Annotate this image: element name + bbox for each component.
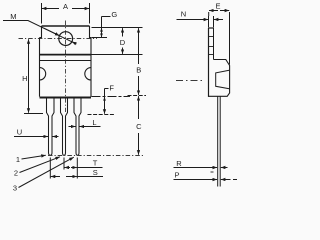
side view: tab boundary tick (209, 54, 214, 56)
front view: right side notch (85, 68, 91, 80)
dimension U (14, 136, 59, 138)
dimension L (69, 126, 101, 128)
front view: vertical centerline (65, 21, 67, 113)
svg-text:B: B (136, 66, 141, 75)
svg-text:D: D (120, 38, 126, 47)
front view: tab outline with side step (40, 26, 92, 38)
extension line tab top (92, 27, 143, 29)
side view: tab top edge (209, 27, 214, 29)
extension line lead shoulder right (dashed) (88, 114, 115, 116)
extension line lead3 center (76, 158, 78, 179)
svg-text:P: P (174, 171, 179, 180)
lead 3 (74, 98, 81, 156)
side view: back edge (208, 28, 210, 97)
dimension S (51, 176, 103, 178)
svg-text:C: C (136, 122, 142, 131)
lead 2 (61, 98, 68, 156)
svg-text:U: U (17, 128, 22, 137)
dimension E (209, 11, 230, 65)
svg-text:S: S (93, 168, 98, 177)
svg-text:G: G (111, 10, 117, 19)
extension line tab bottom (92, 54, 143, 56)
dimension R (174, 167, 228, 169)
leader pin 3 (19, 157, 74, 187)
svg-text:A: A (63, 2, 68, 11)
front view: mold line (40, 60, 92, 62)
extension line body bottom right (92, 96, 131, 98)
side view: mid centerline dash (176, 80, 203, 82)
extension line lead shoulder left (24, 113, 43, 115)
dimension A (42, 3, 90, 24)
svg-text:3: 3 (13, 184, 17, 193)
side view: tab front edge (213, 28, 215, 60)
front view: horizontal hole centerline (19, 38, 98, 40)
svg-text:H: H (22, 74, 27, 83)
extension line lead2 center (63, 158, 65, 170)
dimension B (138, 28, 140, 95)
extension line body bottom (dashed) (128, 95, 147, 97)
lead 1 (47, 98, 55, 156)
side view: hole top tick (209, 36, 214, 38)
leader pin 2 (20, 157, 61, 173)
dimension F (105, 89, 109, 114)
svg-text:M: M (10, 12, 16, 21)
svg-text:1: 1 (16, 155, 20, 164)
svg-text:E: E (215, 2, 220, 11)
svg-text:L: L (92, 118, 96, 127)
svg-text:F: F (109, 83, 114, 92)
front view: left side notch (40, 68, 46, 80)
dimension T (64, 167, 102, 169)
dimension C (138, 96, 140, 155)
svg-text:T: T (93, 159, 98, 168)
dimension G (92, 17, 111, 38)
dimension M (hole diameter leader) (3, 21, 76, 44)
extension line lead1 center (49, 158, 51, 179)
dimension H (28, 39, 30, 113)
dimension N (177, 16, 224, 28)
svg-text:R: R (176, 159, 182, 168)
front view: tab/body boundary thick line (40, 54, 92, 56)
svg-text:2: 2 (14, 169, 18, 178)
dimension D (122, 28, 124, 54)
side view: hole bottom tick (209, 46, 214, 48)
front view: mounting hole (59, 32, 73, 46)
svg-text:N: N (181, 10, 186, 19)
side view: inner ledge (216, 70, 230, 88)
side view: body outline (209, 60, 230, 97)
side view: lead (218, 96, 221, 186)
extension line lead tips (dash-dot) (48, 155, 145, 157)
leader pin 1 (22, 155, 46, 159)
dimension P (174, 179, 238, 181)
small dash mark near lead (211, 171, 214, 173)
front view: body outline (40, 38, 92, 98)
